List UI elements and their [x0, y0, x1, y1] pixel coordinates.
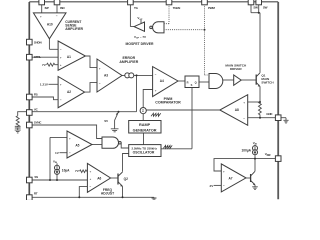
svg-text:RT: RT	[34, 192, 38, 196]
svg-text:VGP – 7V: VGP – 7V	[134, 35, 146, 40]
svg-text:Q2: Q2	[124, 177, 128, 181]
svg-text:ERROR: ERROR	[122, 56, 135, 60]
svg-text:ISN: ISN	[60, 6, 64, 10]
svg-text:SYNC: SYNC	[34, 121, 42, 125]
svg-text:+: +	[90, 177, 92, 181]
svg-text:+: +	[99, 67, 101, 71]
svg-text:CTRL: CTRL	[34, 55, 41, 59]
svg-text:COMPARATOR: COMPARATOR	[155, 101, 181, 105]
svg-text:−: −	[243, 117, 245, 121]
svg-text:−: −	[155, 73, 157, 77]
svg-text:100µA: 100µA	[242, 148, 252, 152]
svg-text:−: −	[60, 98, 62, 102]
svg-text:+: +	[155, 89, 157, 93]
svg-text:SHDN: SHDN	[34, 41, 42, 45]
svg-text:+: +	[40, 14, 42, 18]
svg-text:R: R	[187, 80, 189, 84]
svg-text:−: −	[60, 48, 62, 52]
svg-text:Σ: Σ	[142, 109, 144, 113]
svg-text:+: +	[223, 169, 225, 173]
svg-text:OSCILLATOR: OSCILLATOR	[133, 150, 155, 154]
svg-text:AMPLIFIER: AMPLIFIER	[65, 27, 83, 31]
svg-text:1.21V: 1.21V	[40, 83, 49, 87]
svg-text:SW: SW	[263, 6, 268, 10]
svg-text:Q: Q	[195, 80, 197, 84]
svg-text:−: −	[223, 184, 225, 188]
svg-text:+: +	[60, 63, 62, 67]
svg-text:+: +	[90, 170, 92, 174]
svg-text:ISP: ISP	[45, 6, 49, 10]
svg-text:A4: A4	[160, 79, 164, 83]
svg-text:SS: SS	[34, 175, 38, 179]
svg-text:GENERATOR: GENERATOR	[133, 129, 157, 133]
svg-text:A6: A6	[97, 176, 101, 180]
svg-text:+: +	[60, 56, 62, 60]
svg-text:−: −	[90, 185, 92, 189]
svg-text:S: S	[191, 83, 193, 87]
svg-text:−: −	[99, 82, 101, 86]
svg-text:A2: A2	[67, 90, 71, 94]
svg-text:−: −	[56, 14, 58, 18]
svg-text:A10: A10	[47, 22, 53, 26]
svg-text:+: +	[69, 136, 71, 140]
svg-text:AMPLIFIER: AMPLIFIER	[119, 60, 138, 64]
svg-text:PWM: PWM	[208, 6, 215, 10]
svg-text:A5: A5	[75, 143, 79, 147]
svg-text:MOSFET DRIVER: MOSFET DRIVER	[126, 42, 154, 46]
svg-text:SWITCH: SWITCH	[261, 81, 274, 85]
svg-text:A3: A3	[104, 74, 108, 78]
svg-text:A1: A1	[67, 55, 71, 59]
svg-text:−: −	[69, 151, 71, 155]
svg-text:10µA: 10µA	[62, 168, 70, 172]
svg-text:SW: SW	[253, 6, 258, 10]
svg-text:A7: A7	[228, 176, 232, 180]
svg-text:TGEN: TGEN	[173, 6, 180, 10]
svg-text:+: +	[243, 100, 245, 104]
svg-text:RAMP: RAMP	[139, 123, 151, 127]
svg-text:A8: A8	[235, 108, 239, 112]
svg-text:DRIVER: DRIVER	[230, 67, 242, 71]
svg-text:S5: S5	[104, 119, 108, 123]
svg-text:+: +	[60, 82, 62, 86]
svg-text:ADJUST: ADJUST	[101, 191, 114, 195]
